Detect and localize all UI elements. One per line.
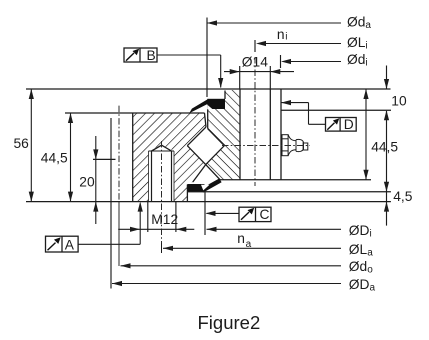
svg-text:D: D [344, 117, 354, 132]
svg-text:B: B [147, 48, 156, 63]
svg-text:Øda: Øda [347, 15, 371, 32]
svg-text:20: 20 [79, 174, 95, 189]
svg-text:C: C [260, 207, 270, 222]
svg-text:4,5: 4,5 [393, 189, 413, 204]
svg-text:Ø14: Ø14 [242, 54, 268, 69]
svg-text:A: A [65, 238, 75, 253]
svg-text:Ødo: Ødo [349, 259, 373, 276]
svg-text:10: 10 [391, 93, 407, 108]
svg-text:44,5: 44,5 [371, 140, 398, 155]
svg-text:ØLi: ØLi [347, 35, 368, 52]
svg-text:a: a [246, 239, 252, 250]
svg-text:44,5: 44,5 [41, 151, 68, 166]
svg-text:ØLa: ØLa [349, 242, 373, 258]
svg-text:56: 56 [14, 136, 30, 151]
svg-text:Ødi: Ødi [347, 52, 368, 69]
svg-text:ØDi: ØDi [349, 223, 372, 240]
svg-text:i: i [285, 32, 287, 43]
svg-text:ØDa: ØDa [349, 277, 376, 294]
svg-text:Figure2: Figure2 [198, 312, 261, 333]
svg-text:M12: M12 [151, 212, 178, 227]
svg-text:n: n [237, 231, 245, 246]
svg-text:n: n [277, 27, 285, 42]
